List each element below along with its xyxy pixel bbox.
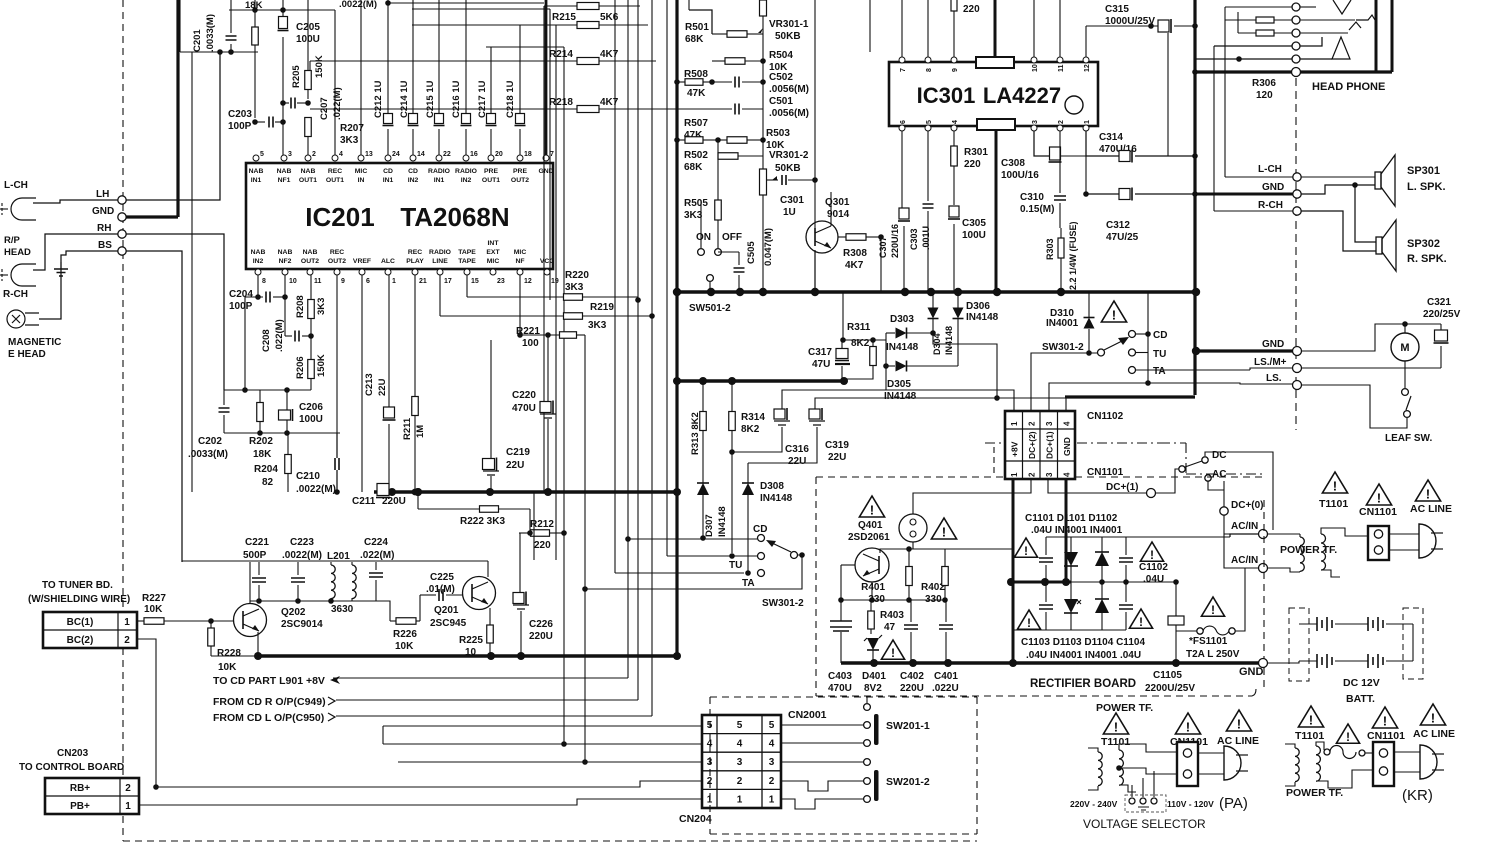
IC U301 box IC301 LA4227 — [889, 62, 1098, 126]
svg-text:.001U: .001U — [921, 226, 931, 250]
svg-text:500P: 500P — [243, 550, 267, 561]
svg-text:3: 3 — [1032, 120, 1039, 124]
wire R-CH feed — [1214, 210, 1293, 212]
connector L-CH head jack — [11, 198, 36, 220]
svg-text:100U/16: 100U/16 — [1001, 170, 1039, 181]
svg-text:.022(M): .022(M) — [274, 319, 285, 352]
svg-text:C315: C315 — [1105, 4, 1129, 15]
svg-text:R208: R208 — [295, 295, 306, 318]
warning triangle fuse — [1201, 597, 1224, 616]
wire node y433 — [224, 432, 340, 434]
wire Q202 collector — [249, 562, 251, 604]
svg-text:DC 12V: DC 12V — [1343, 677, 1380, 689]
svg-text:ALC: ALC — [381, 258, 395, 265]
wire Q202 base node — [208, 618, 214, 624]
svg-text:C505: C505 — [746, 241, 757, 264]
wire CN1101 pin3 to DC+(1) — [1048, 479, 1146, 493]
svg-text:2: 2 — [1058, 120, 1065, 124]
svg-text:7: 7 — [900, 68, 907, 72]
svg-text:REC: REC — [330, 249, 344, 256]
svg-text:RB+: RB+ — [70, 783, 90, 794]
svg-text:4K7: 4K7 — [600, 97, 619, 108]
resistor R213 top — [577, 3, 599, 10]
svg-text:C223: C223 — [290, 537, 314, 548]
svg-text:C224: C224 — [364, 537, 388, 548]
thick GND wire to speakers y194 — [1196, 193, 1293, 196]
svg-text:D305: D305 — [887, 379, 911, 390]
svg-text:330: 330 — [925, 594, 942, 605]
svg-text:220: 220 — [963, 4, 980, 15]
dashed line headphone to speakers — [1295, 78, 1297, 430]
wire fan y762 — [398, 761, 702, 763]
wire C218 top link — [486, 46, 564, 48]
svg-text:L-CH: L-CH — [4, 180, 28, 191]
wire AC/IN rows — [1223, 515, 1225, 534]
svg-text:23: 23 — [497, 278, 505, 285]
svg-text:IC301: IC301 — [917, 83, 976, 108]
wire SW201 top circle stub — [866, 697, 868, 703]
wire x815 column — [814, 0, 816, 180]
svg-text:4K7: 4K7 — [845, 260, 864, 271]
IC301 pin wires up — [901, 0, 903, 57]
svg-text:AC LINE: AC LINE — [1217, 735, 1259, 747]
wire ON col up — [700, 200, 702, 232]
warning triangle near D310 — [1101, 301, 1126, 322]
wire L-CH feed — [1225, 176, 1293, 178]
svg-text:SW501-2: SW501-2 — [689, 303, 731, 314]
svg-text:1: 1 — [125, 801, 131, 812]
svg-text:C307: C307 — [878, 236, 888, 258]
warning triangle T1101 PA — [1103, 713, 1128, 734]
svg-text:C214 1U: C214 1U — [399, 80, 410, 118]
warning triangle rect4 — [1129, 609, 1152, 628]
svg-text:47U/25: 47U/25 — [1106, 232, 1139, 243]
svg-text:IN1: IN1 — [383, 177, 394, 184]
svg-text:ON: ON — [696, 232, 711, 243]
headphone jack symbol — [1333, 0, 1351, 14]
svg-text:T1101: T1101 — [1319, 498, 1348, 510]
svg-text:IN2: IN2 — [408, 177, 419, 184]
svg-text:C1105: C1105 — [1153, 670, 1182, 681]
wire fan verticals — [382, 726, 384, 744]
wire TA row to LS/M+ — [1136, 369, 1250, 371]
svg-text:8: 8 — [926, 68, 933, 72]
wire R220 right drop — [635, 297, 641, 303]
IC201 bottom pins — [255, 269, 261, 275]
wire bundle v2 CD feed — [627, 0, 629, 678]
bridge diode D1104 — [1095, 599, 1109, 613]
wire x1168 column — [1167, 33, 1169, 156]
svg-text:22U: 22U — [506, 460, 524, 471]
thick bus y582 — [1011, 581, 1071, 584]
wire AC/IN2 to coil — [1267, 568, 1300, 572]
svg-text:1M: 1M — [415, 425, 426, 438]
svg-text:DC+(2): DC+(2) — [1027, 431, 1037, 459]
svg-text:5: 5 — [737, 720, 743, 731]
thick wire into IC301 top notch — [994, 0, 997, 57]
svg-text:!: ! — [891, 646, 895, 660]
svg-text:3K3: 3K3 — [588, 320, 607, 331]
switch arm SW301-2 upper — [1098, 349, 1105, 356]
svg-text:D308: D308 — [760, 481, 784, 492]
svg-text:NAB: NAB — [249, 168, 264, 175]
svg-text:R222 3K3: R222 3K3 — [460, 516, 505, 527]
svg-text:R301: R301 — [964, 147, 988, 158]
IC301 top notch — [976, 57, 1014, 68]
warning triangle rect2 — [1140, 542, 1163, 561]
svg-text:220V - 240V: 220V - 240V — [1070, 799, 1118, 809]
svg-text:.0056(M): .0056(M) — [769, 84, 809, 95]
svg-text:D303: D303 — [890, 314, 914, 325]
bus4 y656 — [258, 654, 677, 657]
wire 870 column — [869, 0, 871, 52]
svg-text:4: 4 — [339, 151, 343, 158]
svg-text:68K: 68K — [685, 34, 704, 45]
svg-text:3: 3 — [1045, 421, 1054, 426]
svg-text:.0022(M): .0022(M) — [339, 0, 377, 10]
svg-text:R502: R502 — [684, 150, 708, 161]
svg-text:C208: C208 — [261, 329, 272, 352]
rectifier top rail — [1046, 536, 1230, 538]
svg-text:R507: R507 — [684, 118, 708, 129]
wire L-CH to speaker — [1301, 176, 1375, 178]
svg-text:47U: 47U — [812, 359, 830, 370]
svg-text:10: 10 — [1032, 64, 1039, 72]
svg-text:!: ! — [870, 503, 874, 518]
svg-text:!: ! — [1186, 720, 1190, 735]
svg-text:18: 18 — [524, 151, 532, 158]
svg-text:VCC: VCC — [540, 258, 554, 265]
svg-text:3: 3 — [769, 757, 775, 768]
svg-text:PRE: PRE — [484, 168, 498, 175]
svg-text:RH: RH — [97, 223, 111, 234]
connector CN1101 KR box — [1373, 742, 1394, 786]
svg-text:2: 2 — [1028, 421, 1037, 426]
svg-text:R308: R308 — [843, 248, 867, 259]
svg-text:14: 14 — [417, 151, 425, 158]
wire Q201 collector — [487, 561, 489, 577]
svg-text:.022(M): .022(M) — [360, 550, 394, 561]
svg-text:.04U IN4001 IN4001: .04U IN4001 IN4001 — [1031, 525, 1123, 536]
svg-text:Q301: Q301 — [825, 197, 850, 208]
svg-text:3K3: 3K3 — [565, 282, 584, 293]
svg-text:C216 1U: C216 1U — [451, 80, 462, 118]
svg-text:C312: C312 — [1106, 220, 1130, 231]
svg-text:19: 19 — [551, 278, 559, 285]
svg-text:CN2001: CN2001 — [788, 709, 827, 721]
svg-text:AC LINE: AC LINE — [1413, 728, 1455, 740]
svg-text:47: 47 — [884, 622, 896, 633]
svg-text:SW301-2: SW301-2 — [1042, 342, 1084, 353]
svg-text:FROM CD L O/P(C950): FROM CD L O/P(C950) — [213, 712, 324, 724]
svg-text:LINE: LINE — [432, 258, 448, 265]
wire BS to tuner — [126, 251, 182, 562]
svg-text:T1101: T1101 — [1101, 736, 1130, 748]
svg-text:6: 6 — [900, 120, 907, 124]
warning triangle AC LINE battery — [1415, 480, 1440, 501]
svg-text:R211: R211 — [402, 417, 413, 440]
svg-text:R306: R306 — [1252, 78, 1276, 89]
wire erase head to BS — [39, 251, 118, 319]
svg-text:10K: 10K — [144, 604, 163, 615]
svg-text:R225: R225 — [459, 635, 483, 646]
IC301 top pins — [899, 57, 905, 63]
svg-text:C308: C308 — [1001, 158, 1025, 169]
wire bundle v5 TU feed — [666, 0, 668, 556]
bridge diode D1101 — [1064, 552, 1078, 566]
svg-text:5: 5 — [926, 120, 933, 124]
battery wiring — [1412, 624, 1414, 661]
svg-text:!: ! — [1431, 711, 1435, 726]
svg-text:C225: C225 — [430, 572, 454, 583]
svg-text:GND: GND — [92, 206, 114, 217]
plug battery area — [1419, 524, 1436, 558]
svg-text:10: 10 — [465, 647, 477, 658]
svg-text:REC: REC — [328, 168, 342, 175]
svg-text:CD: CD — [753, 524, 767, 535]
svg-text:R206: R206 — [295, 356, 306, 379]
svg-text:!: ! — [1333, 479, 1337, 494]
svg-text:OUT1: OUT1 — [326, 177, 344, 184]
voltage selector dashed box — [1125, 795, 1166, 812]
svg-text:VREF: VREF — [353, 258, 371, 265]
svg-text:VR301-1: VR301-1 — [769, 19, 809, 30]
svg-text:LA4227: LA4227 — [983, 83, 1061, 108]
svg-text:C219: C219 — [506, 447, 530, 458]
connector R-CH head jack — [11, 264, 36, 286]
wire R311 node — [842, 339, 886, 341]
svg-text:C221: C221 — [245, 537, 269, 548]
svg-text:C213: C213 — [364, 373, 375, 396]
switch SW301-2 contacts — [758, 535, 765, 542]
svg-text:Q202: Q202 — [281, 607, 306, 618]
svg-text:.022(M): .022(M) — [332, 87, 343, 120]
svg-text:LH: LH — [96, 189, 109, 200]
svg-text:GND: GND — [1262, 339, 1284, 350]
svg-text:R226: R226 — [393, 629, 417, 640]
svg-text:22U: 22U — [828, 452, 846, 463]
svg-text:3: 3 — [737, 757, 743, 768]
svg-text:R218: R218 — [549, 97, 573, 108]
svg-text:C501: C501 — [769, 96, 793, 107]
svg-text:!: ! — [1237, 717, 1241, 732]
svg-text:22: 22 — [443, 151, 451, 158]
svg-text:OUT1: OUT1 — [299, 177, 317, 184]
thermostat — [899, 514, 927, 542]
wire C403 column — [840, 565, 842, 616]
wire Q301 emitter to bus — [814, 250, 816, 292]
svg-text:IN4001: IN4001 — [1046, 318, 1079, 329]
svg-text:5: 5 — [769, 720, 775, 731]
leaf switch — [1404, 361, 1406, 388]
svg-text:220: 220 — [964, 159, 981, 170]
wire feeder column x550 — [549, 9, 551, 300]
wire top rail y5 — [388, 2, 544, 4]
svg-text:C1101 D1101 D1102: C1101 D1101 D1102 — [1025, 513, 1118, 524]
svg-text:OUT1: OUT1 — [482, 177, 500, 184]
svg-text:.0056(M): .0056(M) — [769, 108, 809, 119]
svg-text:2.2 1/4W (FUSE): 2.2 1/4W (FUSE) — [1068, 221, 1078, 290]
wire head to GND thick — [126, 215, 178, 218]
svg-text:C401: C401 — [934, 671, 958, 682]
svg-text:AC/IN: AC/IN — [1231, 521, 1258, 532]
svg-text:GND: GND — [538, 168, 553, 175]
wire to connector from diodes — [782, 366, 886, 409]
svg-text:13: 13 — [365, 151, 373, 158]
connector BC box — [43, 612, 137, 648]
svg-text:IN2: IN2 — [253, 258, 264, 265]
wire DC+(1) right — [1156, 469, 1179, 493]
svg-text:C211: C211 — [352, 496, 376, 507]
svg-text:PLAY: PLAY — [406, 258, 424, 265]
thick right bus x1195 — [1193, 0, 1196, 395]
svg-text:11: 11 — [314, 278, 322, 285]
svg-text:TAPE: TAPE — [458, 258, 476, 265]
svg-text:IN4148: IN4148 — [884, 391, 917, 402]
svg-text:82: 82 — [262, 477, 274, 488]
svg-text:T2A L 250V: T2A L 250V — [1186, 649, 1240, 660]
svg-text:TU: TU — [729, 560, 742, 571]
svg-text:R228: R228 — [217, 648, 241, 659]
svg-text:NAB: NAB — [303, 249, 318, 256]
svg-text:3K3: 3K3 — [340, 135, 359, 146]
warning triangle AC LINE PA — [1226, 710, 1251, 731]
svg-text:.0033(M): .0033(M) — [188, 449, 228, 460]
svg-text:C204: C204 — [229, 289, 253, 300]
svg-text:C210: C210 — [296, 471, 320, 482]
speaker SP302 — [1376, 237, 1382, 254]
svg-text:2SC945: 2SC945 — [430, 618, 467, 629]
svg-text:12: 12 — [524, 278, 532, 285]
connector CN1102 CN1101 box — [1005, 411, 1075, 479]
svg-text:TO CONTROL BOARD: TO CONTROL BOARD — [19, 762, 124, 773]
bridge caps C1101 — [1039, 558, 1053, 562]
svg-text:FROM CD R O/P(C949): FROM CD R O/P(C949) — [213, 696, 326, 708]
warning triangle CN1101 PA — [1175, 713, 1200, 734]
speaker SP301 — [1375, 172, 1381, 189]
outer board dashed border — [122, 0, 124, 841]
svg-text:CD: CD — [1153, 330, 1167, 341]
svg-text:6: 6 — [366, 278, 370, 285]
svg-text:47K: 47K — [687, 88, 706, 99]
svg-text:.04U: .04U — [1143, 574, 1164, 585]
svg-text:MIC: MIC — [514, 249, 527, 256]
svg-text:OFF: OFF — [722, 232, 742, 243]
wire TA row — [615, 572, 744, 574]
svg-text:INT: INT — [488, 240, 500, 247]
thick wire y72 to headphone — [1195, 70, 1392, 73]
wire top node y10 — [229, 9, 335, 11]
svg-text:CD: CD — [383, 168, 393, 175]
wire pivot to CN1102 pin2 — [1031, 353, 1097, 411]
svg-text:120: 120 — [1256, 90, 1273, 101]
svg-text:4: 4 — [1063, 421, 1072, 426]
svg-text:220U: 220U — [529, 631, 553, 642]
wire R214 left drop — [309, 61, 311, 70]
svg-text:Q401: Q401 — [858, 520, 883, 531]
svg-text:R303: R303 — [1045, 238, 1055, 260]
battery dashed box left — [1289, 608, 1309, 681]
svg-text:R. SPK.: R. SPK. — [1407, 253, 1447, 265]
svg-text:TU: TU — [1153, 349, 1166, 360]
svg-text:C316: C316 — [785, 444, 809, 455]
svg-text:TAPE: TAPE — [458, 249, 476, 256]
svg-text:OUT2: OUT2 — [301, 258, 319, 265]
svg-text:.0022(M): .0022(M) — [296, 484, 336, 495]
thick GND bus vertical left — [176, 0, 179, 217]
svg-text:!: ! — [1150, 548, 1154, 562]
svg-text:C218 1U: C218 1U — [505, 80, 516, 118]
svg-text:5: 5 — [260, 151, 264, 158]
IC201 top pins — [253, 155, 259, 161]
bridge cap C1102 — [1119, 558, 1133, 562]
svg-text:3: 3 — [288, 151, 292, 158]
svg-text:*FS1101: *FS1101 — [1189, 636, 1228, 647]
svg-text:NF2: NF2 — [279, 258, 292, 265]
svg-text:!: ! — [1024, 544, 1028, 558]
svg-text:2: 2 — [312, 151, 316, 158]
zener D401 — [867, 638, 879, 650]
bridge diode D1102 — [1095, 552, 1109, 566]
dashed rectifier board border — [816, 476, 1005, 478]
connector CN1101 PA box — [1177, 742, 1198, 786]
svg-text:NAB: NAB — [278, 249, 293, 256]
svg-text:C1103 D1103 D1104 C1104: C1103 D1103 D1104 C1104 — [1021, 637, 1145, 648]
svg-text:18K: 18K — [253, 449, 272, 460]
headphone wires — [1225, 6, 1292, 8]
svg-text:IN4148: IN4148 — [944, 326, 954, 355]
svg-text:NF: NF — [515, 258, 524, 265]
svg-text:.0033(M): .0033(M) — [205, 14, 216, 52]
svg-text:HEAD: HEAD — [4, 247, 31, 258]
svg-text:CN1101: CN1101 — [1367, 730, 1405, 742]
svg-text:.01(M): .01(M) — [426, 584, 455, 595]
wire DC to right — [1205, 452, 1273, 530]
IC U201 box IC201 TA2068N — [246, 163, 553, 269]
svg-text:100P: 100P — [228, 121, 252, 132]
transistor Q401 — [855, 548, 889, 582]
svg-text:L-CH: L-CH — [1258, 164, 1282, 175]
headphone resistor R306a — [1256, 17, 1274, 23]
svg-text:2: 2 — [737, 776, 743, 787]
warning triangle T1101 KR — [1298, 706, 1323, 727]
svg-text:150K: 150K — [314, 55, 325, 78]
node line y600 — [841, 599, 945, 601]
svg-text:68K: 68K — [684, 162, 703, 173]
svg-text:16: 16 — [470, 151, 478, 158]
thick GND wire y351 — [1196, 349, 1293, 352]
wire vertical x1148 — [1147, 292, 1149, 383]
connector CN1101 battery box — [1368, 526, 1389, 560]
warning triangle CN1101 battery — [1366, 484, 1391, 505]
svg-text:GND: GND — [1262, 182, 1284, 193]
svg-text:POWER TF.: POWER TF. — [1286, 787, 1343, 799]
wire R308 right down to bus — [880, 237, 882, 292]
svg-text:BS: BS — [98, 240, 112, 251]
svg-text:150K: 150K — [316, 354, 327, 377]
svg-text:C402: C402 — [900, 671, 924, 682]
svg-text:C220: C220 — [512, 390, 536, 401]
svg-text:TO TUNER BD.: TO TUNER BD. — [42, 580, 113, 591]
transformer T1101 KR coils — [1295, 748, 1299, 782]
wires into CN1102 top — [886, 390, 1014, 411]
magnetic erase head connector — [7, 310, 25, 328]
svg-text:1: 1 — [1010, 472, 1019, 477]
wire fan y726 — [383, 725, 702, 727]
svg-text:4: 4 — [1063, 472, 1072, 477]
warning triangle T1101 battery — [1322, 472, 1347, 493]
power tf battery area coils — [1300, 537, 1304, 571]
